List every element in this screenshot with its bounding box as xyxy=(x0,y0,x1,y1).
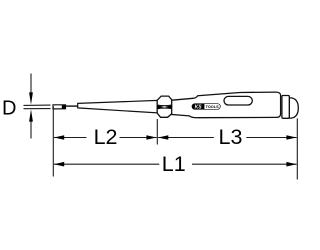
cap ring xyxy=(282,96,289,119)
blade flat tip xyxy=(53,105,66,109)
left extension line xyxy=(52,107,54,177)
dome end cap xyxy=(289,98,298,118)
svg-text:TOOLS: TOOLS xyxy=(206,105,219,109)
L3 left arrowhead xyxy=(158,135,168,140)
svg-text:KS: KS xyxy=(195,104,203,110)
D dimension upper arrow line xyxy=(30,74,32,94)
L2 dimension line right segment xyxy=(120,137,157,139)
L3 right arrowhead xyxy=(286,135,296,140)
L1 dimension line right segment xyxy=(192,163,297,165)
anti-roll collar xyxy=(157,96,172,117)
clip slot oval xyxy=(224,96,252,105)
svg-text:D: D xyxy=(2,98,16,120)
D upper arrowhead xyxy=(29,92,33,104)
blade thickness reference line (top) xyxy=(24,104,51,106)
L1 left arrowhead xyxy=(54,162,64,167)
right extension line xyxy=(296,118,298,179)
svg-text:L1: L1 xyxy=(162,152,186,176)
blade thickness reference line (bottom) xyxy=(24,108,51,110)
D lower arrowhead xyxy=(29,109,33,121)
blade dark wedge xyxy=(62,105,66,109)
handle body xyxy=(171,92,281,118)
D dimension lower arrow line xyxy=(30,121,32,139)
svg-text:L2: L2 xyxy=(94,125,118,149)
L2 left arrowhead xyxy=(54,135,64,140)
L2 right arrowhead xyxy=(146,135,156,140)
L1 right arrowhead xyxy=(286,162,296,167)
plastic taper cone xyxy=(78,100,158,113)
metal shaft xyxy=(66,105,78,106)
L1 dimension line left segment xyxy=(54,163,159,165)
middle extension line xyxy=(156,119,158,145)
L2 dimension line left segment xyxy=(54,137,87,139)
L3 dimension line right segment xyxy=(246,137,296,139)
svg-text:L3: L3 xyxy=(219,125,243,149)
KS TOOLS logo badge xyxy=(192,104,220,111)
L3 dimension line left segment xyxy=(158,137,214,139)
